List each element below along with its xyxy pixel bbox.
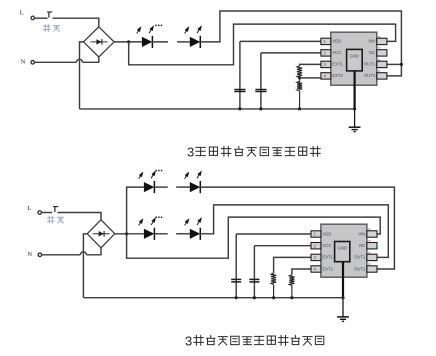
wire gap to D6 (string B) [176, 233, 190, 235]
ground rail (top circuit) [80, 108, 355, 110]
node C4-rail junction [253, 296, 256, 299]
wire L to switch (bottom) [41, 212, 52, 214]
resistor R2 (top) [297, 78, 302, 109]
svg-text:L: L [27, 205, 31, 212]
svg-text:OUT1: OUT1 [364, 62, 376, 67]
capacitor C3 (bottom) [231, 234, 241, 298]
IC U2 pin labels [323, 231, 366, 271]
wire L to switch [34, 17, 47, 19]
wire EXT2 tap (top) [300, 77, 321, 79]
op-amp U1 body (driver IC) [331, 32, 377, 85]
wire BR2 output junction [115, 233, 144, 235]
wire gap to D2 [177, 41, 190, 43]
svg-text:N: N [27, 251, 32, 258]
wire BR2 negative to ground rail (bottom) [83, 234, 87, 298]
svg-text:VCC: VCC [323, 243, 332, 248]
svg-text:EXT1: EXT1 [332, 62, 343, 67]
wire gap to D4 (string A) [176, 186, 190, 188]
terminal L (bottom circuit) [38, 211, 42, 215]
capacitor C1 (top) [234, 41, 245, 109]
node N (bottom circuit) [27, 251, 32, 258]
svg-text:GND: GND [350, 54, 360, 59]
ellipsis dots (more LEDs, top) [155, 25, 162, 27]
node GND-rail junction (top) [353, 107, 356, 110]
LED D3 (bottom circuit, string A first) [139, 170, 156, 193]
wire VIN feed (bottom) [127, 217, 381, 258]
svg-text:L: L [20, 10, 24, 17]
svg-text:GND: GND [337, 246, 347, 251]
caption: 3段调光典型示意电路图 [187, 144, 320, 159]
node OUT1/OUT2 junction (top) [400, 63, 403, 66]
wire D5 to gap (string B) [154, 233, 168, 235]
svg-text:EXT2: EXT2 [323, 266, 334, 271]
IC U1 pins left [321, 38, 331, 79]
wire BR1 output to LED anode [114, 41, 142, 43]
svg-text:VDD: VDD [323, 231, 332, 236]
bridge rectifier BR2 [87, 220, 115, 248]
ellipsis dots (string B) [155, 217, 162, 219]
wire switch to bridge top (bottom) [58, 213, 102, 221]
wire string A to OUT2 (bottom) [200, 187, 395, 269]
switch S2 (开关) [53, 207, 58, 213]
node R1/R2 junction (top) [298, 76, 301, 79]
svg-text:OUT2: OUT2 [354, 266, 366, 271]
svg-text:OUT1: OUT1 [354, 255, 366, 260]
wire EXT2 to R4 (bottom) [292, 269, 311, 275]
wire D1 to gap [152, 41, 168, 43]
IC U1 pin numbers [324, 35, 382, 79]
resistor R3 (bottom) [271, 273, 276, 298]
node LED feed junction (bottom) [125, 232, 128, 235]
wire N to bridge bottom (bottom, hop) [42, 248, 102, 255]
node L (bottom circuit) [27, 205, 31, 212]
IC U2 pins right [367, 231, 377, 272]
caption: 3段调色温典型示意电路图 [185, 333, 324, 348]
resistor R1 (top) [297, 66, 302, 78]
node C2-rail junction [259, 107, 262, 110]
wire D3 to gap (string A) [154, 186, 168, 188]
svg-text:NC: NC [369, 50, 375, 55]
IC U2 GND pad box [335, 242, 350, 262]
terminal N (top circuit) [31, 61, 35, 65]
wire VCC to C4 (bottom) [254, 245, 311, 247]
node R4-rail junction [290, 296, 293, 299]
node LED feed junction (top) [127, 40, 130, 43]
terminal L (top circuit) [31, 16, 35, 20]
node L (top circuit) [20, 10, 24, 17]
wire OUT1 stub (top) [387, 63, 401, 65]
svg-text:NC: NC [359, 243, 365, 248]
node R3-rail junction [272, 296, 275, 299]
svg-text:3: 3 [185, 333, 192, 348]
wire U2 GND stem [342, 262, 344, 317]
ellipsis dots (string A) [155, 170, 162, 172]
capacitor C4 (bottom) [249, 246, 259, 298]
svg-text:VIN: VIN [358, 231, 365, 236]
bridge rectifier BR1 [84, 27, 115, 57]
resistor R4 (bottom) [289, 275, 294, 298]
wire EXT1 to R1 (top) [300, 64, 321, 65]
node N (top circuit) [21, 59, 26, 66]
wire VDD to C3 (bottom) [236, 233, 311, 235]
wire VCC to C2 (top) [261, 52, 321, 54]
label 开关 (switch, top) [43, 25, 59, 32]
node C3-rail junction [235, 296, 238, 299]
LED D2 (top circuit, second) [185, 25, 202, 48]
IC U1 pins right [377, 38, 387, 79]
wire D2 cathode to OUT1/OUT2 (top loop) [200, 11, 402, 76]
ground rail (bottom circuit) [83, 297, 343, 299]
node GND-rail junction (bottom) [341, 296, 344, 299]
wire switch to bridge top [53, 18, 99, 27]
IC U1 GND pad box [347, 49, 363, 71]
wire junction to top LED string [127, 187, 144, 234]
LED D4 (bottom circuit, string A second) [185, 170, 202, 193]
IC U2 pins left [311, 231, 321, 272]
svg-text:EXT1: EXT1 [323, 255, 334, 260]
ground (bottom circuit) [337, 317, 349, 321]
switch S1 (开关) [47, 12, 52, 18]
ground (top circuit) [349, 127, 361, 131]
terminal N (bottom circuit) [38, 253, 42, 256]
label 开关 (switch, bottom) [47, 216, 63, 223]
svg-text:EXT2: EXT2 [332, 73, 343, 78]
IC U2 pin numbers [314, 227, 372, 271]
svg-text:N: N [21, 59, 26, 66]
LED D6 (bottom circuit, string B second) [185, 217, 202, 240]
wire VIN feed (top) [129, 24, 396, 65]
wire VDD to C1 (top) [240, 40, 321, 42]
LED D1 (top circuit, first) [137, 25, 154, 48]
op-amp U2 body (driver IC) [321, 224, 367, 277]
svg-text:OUT2: OUT2 [364, 73, 376, 78]
svg-text:VCC: VCC [332, 50, 341, 55]
IC U1 pin labels [332, 39, 375, 78]
svg-text:3: 3 [187, 144, 194, 159]
wire N to bridge bottom (hop over rail drop) [34, 57, 99, 62]
svg-text:VIN: VIN [368, 39, 375, 44]
wire string B to OUT1 (bottom) [200, 205, 389, 258]
wire EXT1 to R3 (bottom) [274, 257, 311, 273]
LED D5 (bottom circuit, string B first) [139, 217, 156, 240]
wire U1 GND stem [354, 71, 356, 127]
node R2-rail junction [298, 107, 301, 110]
wire BR1 negative to ground rail [80, 42, 84, 109]
node C1-rail junction [238, 107, 241, 110]
capacitor C2 (top) [255, 53, 266, 109]
svg-text:VDD: VDD [332, 39, 341, 44]
